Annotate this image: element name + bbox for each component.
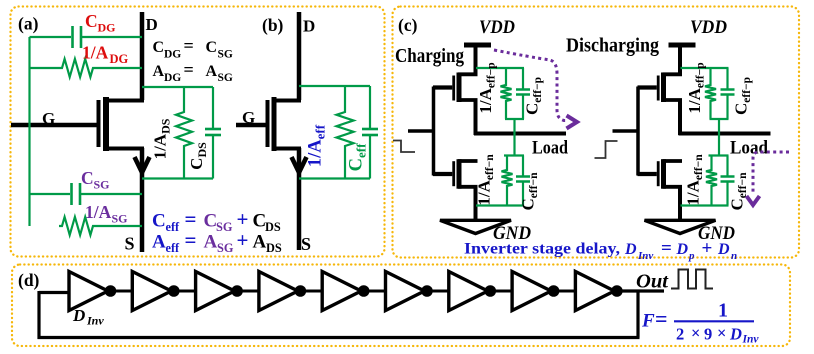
svg-text:Inv: Inv: [86, 314, 104, 328]
svg-text:=: =: [661, 238, 672, 259]
svg-text:G: G: [242, 108, 255, 127]
svg-text:DG: DG: [164, 49, 181, 61]
svg-text:SG: SG: [94, 178, 110, 192]
svg-text:DG: DG: [164, 72, 181, 84]
svg-text:Ceff: Ceff: [347, 143, 369, 171]
svg-text:CDS: CDS: [187, 142, 209, 170]
svg-text:Inverter stage delay,: Inverter stage delay,: [464, 241, 620, 258]
svg-text:n: n: [731, 250, 737, 262]
svg-text:1/Aeff−p: 1/Aeff−p: [685, 62, 707, 113]
svg-text:9: 9: [704, 325, 712, 344]
svg-text:SG: SG: [218, 72, 233, 84]
svg-text:D: D: [624, 241, 637, 258]
svg-text:(a): (a): [18, 14, 39, 34]
svg-text:A: A: [253, 232, 267, 253]
svg-text:eff: eff: [166, 241, 181, 255]
svg-text:×: ×: [717, 324, 726, 343]
svg-text:=: =: [184, 36, 194, 56]
svg-text:C: C: [85, 11, 98, 31]
svg-text:D: D: [676, 241, 689, 258]
svg-text:D: D: [303, 17, 315, 36]
svg-text:Ceff−p: Ceff−p: [523, 77, 545, 115]
svg-text:1/Aeff−p: 1/Aeff−p: [476, 62, 498, 113]
svg-text:Ceff−p: Ceff−p: [732, 77, 754, 115]
svg-text:Load: Load: [532, 138, 568, 159]
svg-text:D: D: [72, 306, 85, 325]
svg-text:eff: eff: [166, 220, 181, 234]
svg-text:C: C: [153, 39, 165, 56]
svg-text:Inv: Inv: [742, 334, 760, 346]
svg-text:A: A: [206, 63, 218, 80]
svg-text:S: S: [301, 234, 311, 254]
svg-text:C: C: [81, 168, 94, 188]
svg-text:1/Aeff−n: 1/Aeff−n: [475, 154, 497, 206]
svg-text:×: ×: [691, 324, 700, 343]
svg-text:1/ADS: 1/ADS: [151, 118, 173, 159]
svg-text:SG: SG: [217, 241, 234, 255]
svg-text:2: 2: [676, 325, 684, 344]
svg-text:=: =: [184, 60, 194, 80]
svg-text:D: D: [146, 15, 158, 34]
svg-text:SG: SG: [218, 49, 233, 61]
svg-text:1/Aeff: 1/Aeff: [306, 124, 328, 167]
svg-text:+: +: [702, 238, 713, 259]
svg-text:=: =: [655, 306, 668, 331]
svg-text:VDD: VDD: [479, 17, 515, 38]
svg-text:C: C: [152, 211, 166, 232]
svg-text:Charging: Charging: [395, 45, 464, 67]
svg-text:DG: DG: [110, 52, 129, 66]
svg-text:SG: SG: [112, 212, 128, 226]
svg-text:DG: DG: [98, 21, 116, 35]
svg-text:+: +: [237, 228, 249, 252]
svg-text:D: D: [729, 325, 742, 344]
svg-text:Inv: Inv: [637, 250, 653, 262]
svg-text:SG: SG: [216, 220, 233, 234]
svg-text:A: A: [152, 232, 166, 253]
svg-text:VDD: VDD: [690, 17, 727, 38]
svg-text:G: G: [42, 109, 55, 128]
svg-text:(c): (c): [398, 15, 418, 35]
svg-text:D: D: [717, 241, 730, 258]
svg-text:1/Aeff−n: 1/Aeff−n: [684, 154, 706, 206]
svg-text:DS: DS: [265, 220, 281, 234]
svg-text:C: C: [206, 39, 218, 56]
svg-text:DS: DS: [266, 241, 282, 255]
svg-text:Out: Out: [636, 272, 669, 293]
svg-text:Load: Load: [730, 138, 768, 159]
svg-text:A: A: [153, 63, 165, 80]
svg-text:Discharging: Discharging: [566, 35, 659, 57]
svg-text:1/A: 1/A: [85, 202, 112, 222]
svg-text:(d): (d): [18, 270, 40, 290]
svg-text:S: S: [125, 234, 135, 254]
svg-text:(b): (b): [262, 15, 284, 35]
svg-text:p: p: [688, 250, 695, 262]
svg-text:F: F: [641, 311, 655, 332]
svg-text:A: A: [204, 232, 218, 253]
svg-text:=: =: [185, 228, 197, 252]
svg-text:1/A: 1/A: [82, 43, 109, 63]
svg-text:1: 1: [718, 300, 728, 322]
